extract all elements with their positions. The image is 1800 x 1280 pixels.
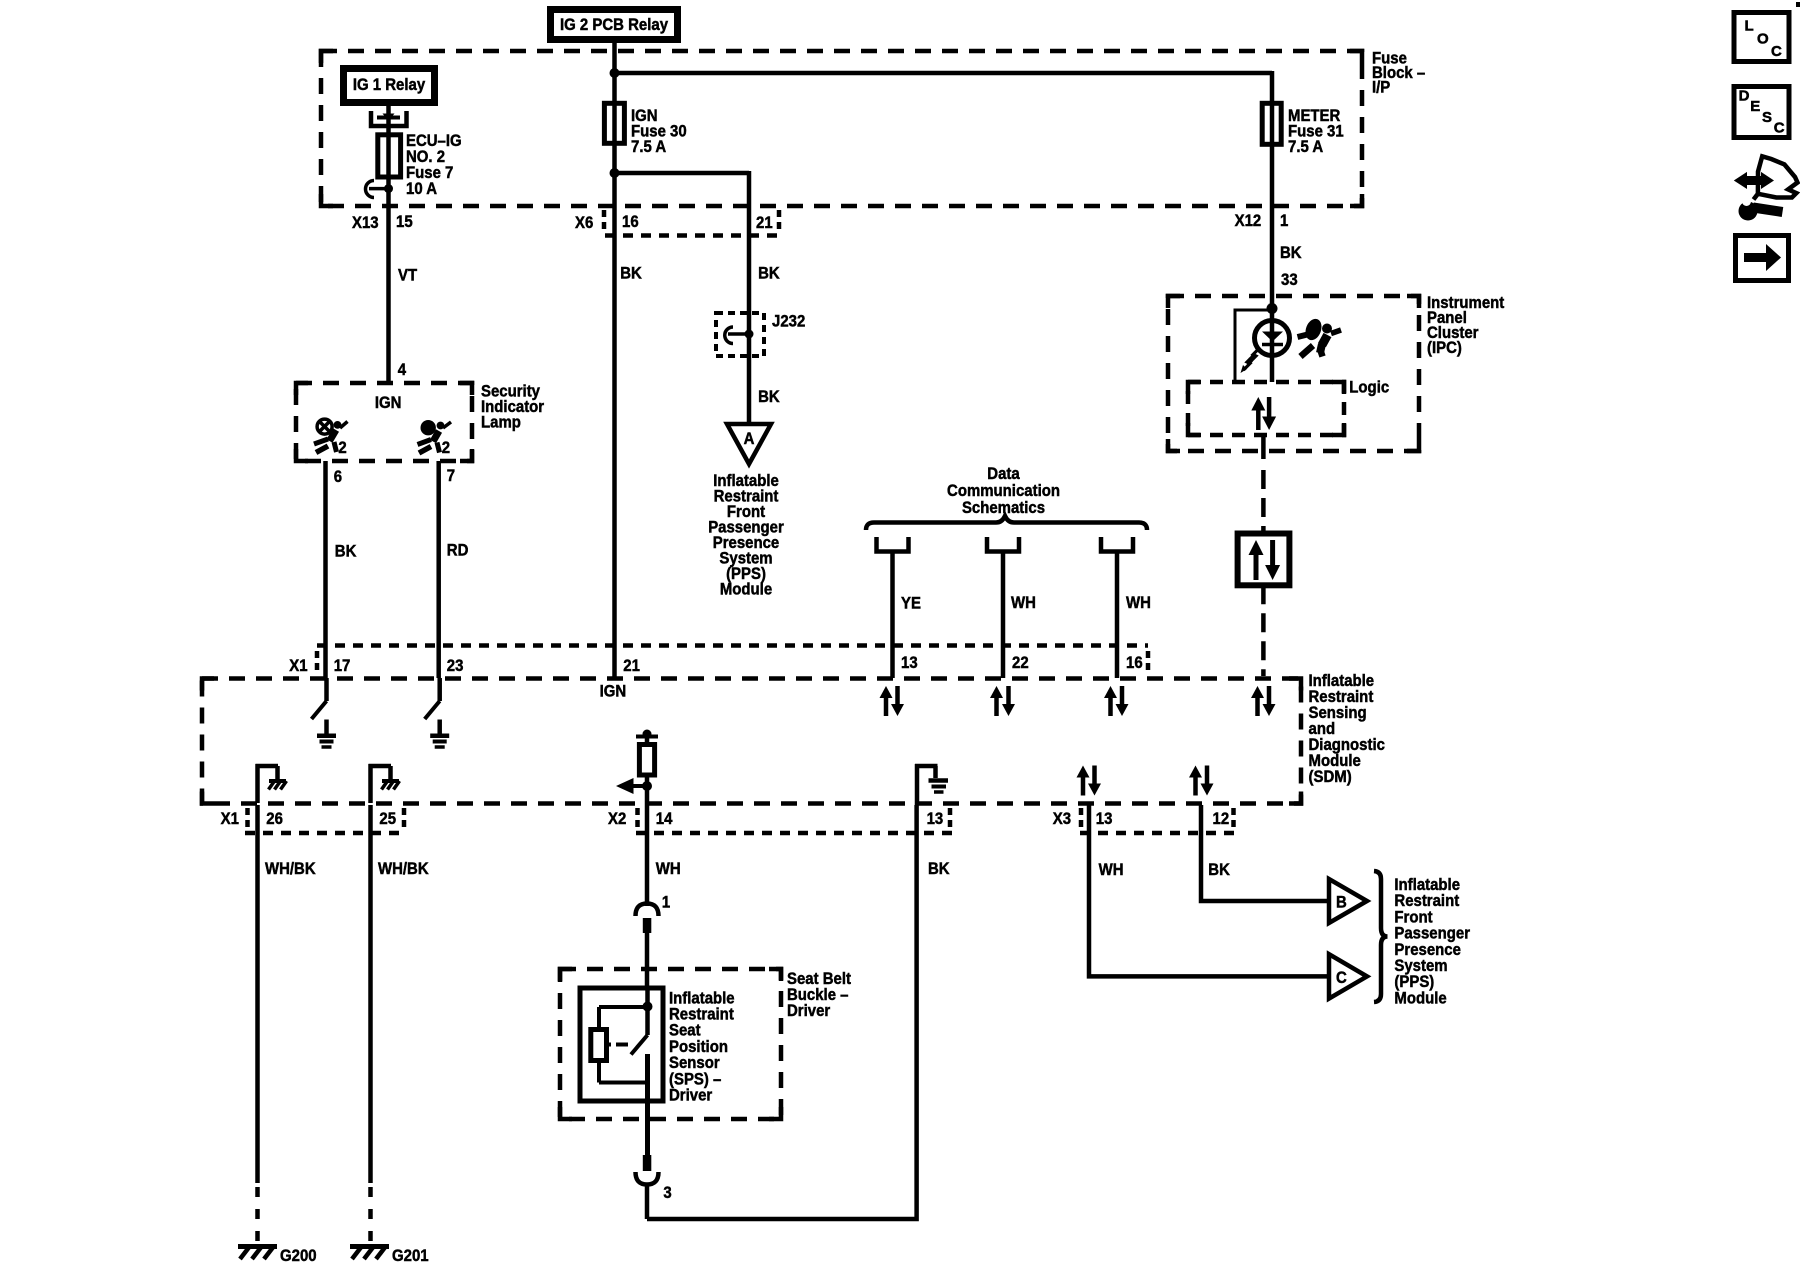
svg-text:Data: Data: [987, 465, 1019, 483]
svg-text:O: O: [1757, 30, 1769, 47]
svg-text:12: 12: [1213, 810, 1230, 828]
svg-text:C: C: [1771, 43, 1782, 60]
svg-text:21: 21: [623, 657, 640, 675]
svg-text:G201: G201: [392, 1247, 429, 1265]
svg-text:IGN: IGN: [600, 683, 627, 701]
svg-text:WH: WH: [1011, 594, 1036, 612]
svg-text:X2: X2: [608, 810, 626, 828]
svg-text:X3: X3: [1053, 810, 1071, 828]
svg-text:BK: BK: [620, 265, 642, 283]
svg-text:1: 1: [1280, 212, 1288, 230]
svg-text:Module: Module: [1394, 990, 1446, 1008]
svg-text:16: 16: [1126, 654, 1143, 672]
svg-text:I/P: I/P: [1372, 79, 1391, 97]
svg-text:IGN: IGN: [375, 394, 402, 412]
svg-text:WH/BK: WH/BK: [265, 860, 316, 878]
svg-text:WH: WH: [1126, 594, 1151, 612]
svg-text:A: A: [744, 430, 755, 448]
svg-text:BK: BK: [1208, 861, 1230, 879]
svg-text:7.5 A: 7.5 A: [1288, 138, 1324, 156]
svg-text:WH: WH: [656, 860, 681, 878]
svg-text:B: B: [1336, 894, 1347, 912]
svg-text:7.5 A: 7.5 A: [631, 138, 667, 156]
svg-text:X1: X1: [289, 657, 307, 675]
svg-text:(IPC): (IPC): [1427, 339, 1462, 357]
svg-text:L: L: [1745, 17, 1754, 34]
svg-text:YE: YE: [901, 594, 921, 612]
svg-text:2: 2: [442, 439, 450, 457]
svg-text:X1: X1: [221, 810, 239, 828]
svg-text:S: S: [1762, 109, 1772, 126]
svg-text:BK: BK: [758, 265, 780, 283]
svg-text:17: 17: [334, 657, 351, 675]
svg-text:D: D: [1739, 88, 1750, 105]
svg-text:BK: BK: [335, 543, 357, 561]
svg-text:21: 21: [756, 214, 773, 232]
svg-text:23: 23: [447, 657, 464, 675]
svg-text:IG 1 Relay: IG 1 Relay: [353, 76, 425, 94]
svg-text:4: 4: [398, 361, 406, 379]
svg-text:Communication: Communication: [947, 482, 1060, 500]
svg-text:14: 14: [656, 810, 673, 828]
svg-text:VT: VT: [398, 267, 417, 285]
svg-text:13: 13: [1096, 810, 1113, 828]
svg-text:1: 1: [662, 894, 670, 912]
svg-text:16: 16: [622, 213, 639, 231]
svg-text:RD: RD: [447, 542, 469, 560]
svg-text:Driver: Driver: [669, 1087, 712, 1105]
svg-text:BK: BK: [928, 860, 950, 878]
svg-text:E: E: [1750, 98, 1760, 115]
svg-text:C: C: [1336, 969, 1347, 987]
svg-text:13: 13: [927, 810, 944, 828]
svg-text:15: 15: [396, 213, 413, 231]
svg-text:(SDM): (SDM): [1309, 768, 1352, 786]
svg-text:6: 6: [334, 468, 342, 486]
svg-text:33: 33: [1281, 271, 1298, 289]
svg-text:BK: BK: [1280, 244, 1302, 262]
svg-text:10 A: 10 A: [406, 180, 437, 198]
svg-text:3: 3: [663, 1184, 671, 1202]
svg-text:X6: X6: [575, 214, 593, 232]
svg-text:J232: J232: [772, 313, 805, 331]
svg-text:X13: X13: [352, 214, 379, 232]
svg-text:C: C: [1774, 119, 1785, 136]
svg-text:25: 25: [379, 810, 396, 828]
svg-text:22: 22: [1012, 654, 1029, 672]
svg-text:X12: X12: [1235, 212, 1262, 230]
svg-text:Module: Module: [720, 581, 772, 599]
svg-text:G200: G200: [280, 1247, 317, 1265]
svg-text:Logic: Logic: [1349, 379, 1389, 397]
svg-text:7: 7: [447, 467, 455, 485]
svg-text:2: 2: [338, 439, 346, 457]
svg-text:Lamp: Lamp: [481, 414, 521, 432]
svg-text:BK: BK: [758, 388, 780, 406]
svg-text:13: 13: [901, 654, 918, 672]
svg-text:Driver: Driver: [787, 1002, 830, 1020]
svg-text:WH/BK: WH/BK: [378, 860, 429, 878]
svg-text:26: 26: [266, 810, 283, 828]
svg-text:IG 2 PCB Relay: IG 2 PCB Relay: [560, 16, 668, 34]
svg-text:WH: WH: [1099, 861, 1124, 879]
